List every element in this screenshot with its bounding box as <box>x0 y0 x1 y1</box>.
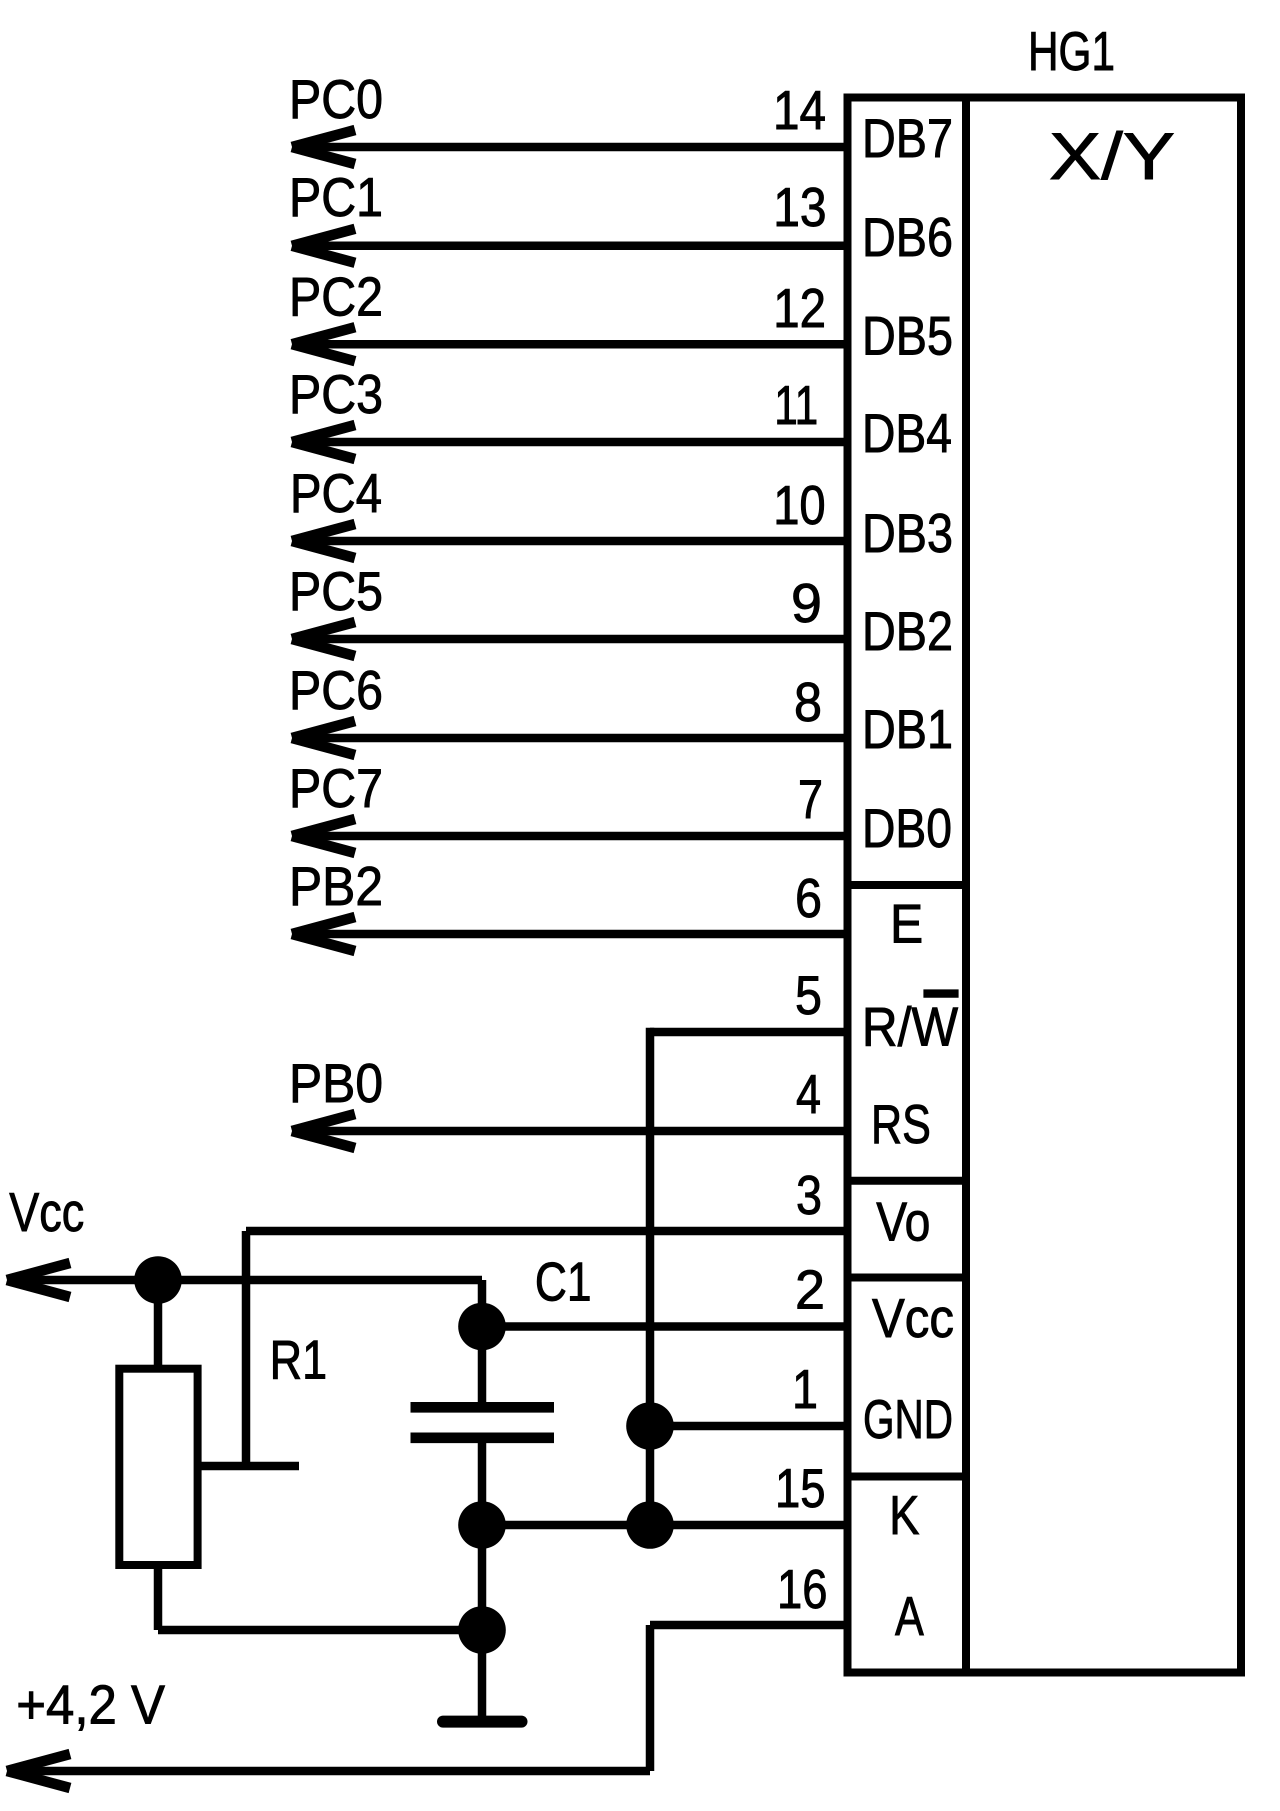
svg-text:DB6: DB6 <box>862 207 953 268</box>
svg-text:PB0: PB0 <box>289 1053 383 1114</box>
svg-text:X/Y: X/Y <box>1049 119 1175 193</box>
svg-text:12: 12 <box>773 278 826 339</box>
svg-text:6: 6 <box>795 868 822 929</box>
svg-text:11: 11 <box>774 375 818 436</box>
svg-text:RS: RS <box>871 1094 931 1155</box>
svg-text:DB5: DB5 <box>862 305 953 366</box>
svg-text:3: 3 <box>796 1165 822 1226</box>
svg-text:8: 8 <box>794 672 822 733</box>
svg-text:14: 14 <box>773 80 826 141</box>
svg-text:PB2: PB2 <box>289 856 383 917</box>
svg-text:7: 7 <box>798 769 823 830</box>
svg-text:GND: GND <box>863 1389 953 1450</box>
svg-text:PC5: PC5 <box>289 561 383 622</box>
svg-text:Vo: Vo <box>876 1192 930 1253</box>
svg-text:15: 15 <box>775 1458 826 1519</box>
svg-text:16: 16 <box>777 1559 828 1620</box>
svg-text:4: 4 <box>796 1064 821 1125</box>
svg-text:DB1: DB1 <box>862 699 953 760</box>
svg-text:2: 2 <box>795 1260 825 1321</box>
svg-text:1: 1 <box>792 1359 818 1420</box>
svg-text:13: 13 <box>773 177 826 238</box>
svg-text:PC6: PC6 <box>289 660 383 721</box>
svg-text:9: 9 <box>791 573 822 634</box>
svg-text:PC7: PC7 <box>289 758 383 819</box>
svg-text:DB3: DB3 <box>862 503 953 564</box>
svg-text:HG1: HG1 <box>1028 21 1115 82</box>
svg-text:C1: C1 <box>535 1251 592 1312</box>
svg-text:A: A <box>895 1586 924 1647</box>
svg-text:R1: R1 <box>270 1329 328 1390</box>
svg-text:DB2: DB2 <box>862 601 953 662</box>
svg-text:Vcc: Vcc <box>872 1288 954 1349</box>
svg-text:E: E <box>890 893 923 954</box>
svg-text:PC4: PC4 <box>290 463 382 524</box>
svg-text:PC1: PC1 <box>289 167 383 228</box>
svg-text:10: 10 <box>773 475 826 536</box>
svg-text:PC2: PC2 <box>289 266 383 327</box>
svg-text:5: 5 <box>795 965 822 1026</box>
svg-text:R/W: R/W <box>862 997 959 1058</box>
svg-text:+4,2 V: +4,2 V <box>16 1674 165 1735</box>
svg-text:PC0: PC0 <box>289 69 383 130</box>
svg-text:DB0: DB0 <box>862 798 952 859</box>
svg-text:DB7: DB7 <box>862 108 953 169</box>
svg-text:PC3: PC3 <box>289 364 383 425</box>
svg-text:K: K <box>889 1485 919 1546</box>
svg-text:DB4: DB4 <box>862 403 952 464</box>
svg-text:Vcc: Vcc <box>9 1182 84 1243</box>
